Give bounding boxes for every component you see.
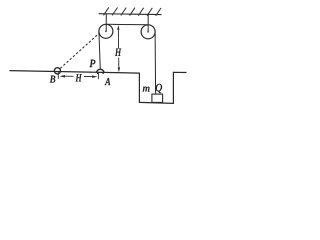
label m — [143, 87, 150, 92]
string between pulleys — [106, 23, 148, 26]
string right pulley down to block Q — [154, 32, 157, 94]
left pulley support wire — [105, 14, 107, 32]
right pulley support wire — [147, 14, 149, 31]
block of mass m (Q) in pit — [152, 94, 163, 102]
label Q — [156, 84, 162, 93]
dashed string from ball B to left pulley — [60, 33, 99, 69]
label H (B-A distance) — [76, 74, 82, 81]
ground line with pit — [10, 71, 187, 104]
B-A dimension right arrow — [84, 76, 93, 78]
ball P at A — [97, 69, 104, 72]
label B — [50, 76, 55, 83]
label H (height dimension) — [115, 49, 121, 56]
ceiling hatching — [104, 7, 162, 16]
height dimension upper arrow — [117, 30, 119, 49]
B-A dimension left arrow — [59, 75, 65, 78]
left pulley axle — [105, 31, 107, 33]
label A — [105, 78, 111, 85]
ball at B — [54, 68, 60, 74]
left pulley — [99, 24, 113, 38]
B-A dimension tick at B — [57, 72, 59, 79]
ceiling line — [99, 13, 162, 16]
string left pulley down to ball P at A — [99, 31, 100, 69]
height dimension lower arrow — [118, 58, 120, 68]
B-A dimension tick at A — [97, 73, 99, 80]
right pulley axle — [147, 31, 149, 33]
right pulley — [141, 25, 155, 39]
label P — [89, 60, 95, 67]
